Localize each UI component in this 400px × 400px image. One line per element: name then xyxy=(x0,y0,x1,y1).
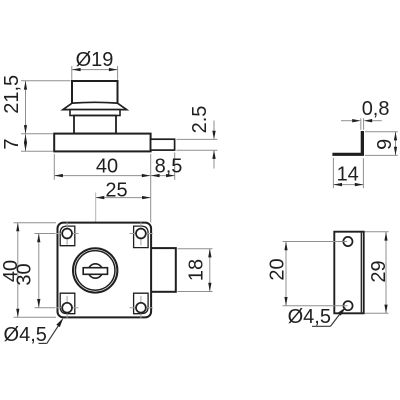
dim 29 arrows xyxy=(384,232,387,241)
svg-text:30: 30 xyxy=(13,263,35,285)
svg-text:20: 20 xyxy=(266,258,288,280)
dim 9 arrows xyxy=(394,132,397,141)
side view: lock body xyxy=(54,134,150,152)
callout Ø4,5 leader (strike) xyxy=(312,325,331,327)
hole crosshairs xyxy=(56,233,79,235)
svg-text:14: 14 xyxy=(337,163,359,185)
dim 30 line xyxy=(38,234,40,308)
screw hole 2 xyxy=(136,229,146,239)
svg-text:9: 9 xyxy=(374,139,396,150)
strike plate inner edge line xyxy=(360,233,362,313)
svg-text:18: 18 xyxy=(186,259,208,281)
key core circle xyxy=(88,264,102,278)
side view: flange collar xyxy=(63,102,127,109)
dim 18 extension lines xyxy=(178,248,213,250)
dim 18 line xyxy=(209,249,211,292)
front view: latch bolt xyxy=(151,248,176,292)
dim 29 extension lines xyxy=(365,231,389,233)
dim 2.5 arrows xyxy=(212,131,215,140)
dim 9 line xyxy=(395,132,397,156)
dim 20 arrows xyxy=(284,242,287,251)
dim 40v arrows xyxy=(16,223,19,232)
dim 40v extension lines xyxy=(14,222,57,224)
svg-text:2.5: 2.5 xyxy=(189,106,211,134)
dim 7 extension lines xyxy=(21,133,53,135)
dim 25 arrows xyxy=(96,196,105,199)
strike plate hole bottom xyxy=(343,301,352,310)
front view: plate xyxy=(58,223,152,318)
dim 9 extension lines xyxy=(365,131,398,133)
screw hole 1 xyxy=(62,229,72,239)
dim 40 arrows xyxy=(54,174,63,177)
dim 29 line xyxy=(385,232,387,313)
callout Ø4,5 leader (front) xyxy=(39,342,47,344)
callout Ø4,5 arrow (front) xyxy=(56,318,63,327)
screw hole 4 xyxy=(136,303,146,313)
svg-text:7: 7 xyxy=(1,138,23,149)
side view: lower cylinder xyxy=(74,116,116,134)
svg-text:25: 25 xyxy=(105,180,127,202)
dim 30 arrows xyxy=(37,234,40,243)
dim 7 arrows xyxy=(24,134,27,143)
dim 40 extension lines xyxy=(53,154,55,180)
strike plate outline xyxy=(334,232,363,314)
dim 0,8 extension lines xyxy=(360,118,362,130)
dim 14 line xyxy=(333,184,363,186)
front view: pad bottom-right xyxy=(134,293,149,314)
dim 2.5 lines xyxy=(213,121,215,139)
L-bracket profile xyxy=(332,131,364,156)
dim 0,8 arrows xyxy=(352,119,361,122)
svg-text:8,5: 8,5 xyxy=(155,155,183,177)
dim Ø19 extension lines xyxy=(71,66,73,80)
dim Ø19 line xyxy=(72,69,118,71)
dim 25 line xyxy=(96,197,151,199)
dim Ø19 arrows xyxy=(72,68,81,71)
side view: cylinder barrel top xyxy=(72,81,118,103)
callout Ø4,5 arrow (strike) xyxy=(338,307,346,315)
dim 14 arrows xyxy=(333,183,342,186)
dim 40v line xyxy=(17,223,19,318)
dim 21,5 arrows xyxy=(24,81,27,90)
dim 20 line xyxy=(285,242,287,306)
svg-text:Ø19: Ø19 xyxy=(76,49,114,71)
dim 14 extension lines xyxy=(332,158,334,188)
strike plate hole top xyxy=(343,237,352,246)
svg-text:29: 29 xyxy=(368,260,390,282)
front view: pad top-right xyxy=(134,226,149,248)
front view: pad bottom-left xyxy=(60,293,75,314)
svg-text:21,5: 21,5 xyxy=(1,75,23,114)
svg-text:40: 40 xyxy=(96,155,118,177)
dim 21,5 extension line xyxy=(21,80,71,82)
svg-text:Ø4,5: Ø4,5 xyxy=(4,324,47,346)
dim 30 extension lines xyxy=(35,233,56,235)
side view: neck washer xyxy=(70,110,120,116)
svg-text:Ø4,5: Ø4,5 xyxy=(288,306,331,328)
screw hole 3 xyxy=(62,303,72,313)
dim 18 arrows xyxy=(208,249,211,258)
dim 25 centerline xyxy=(95,193,97,263)
key slot bar xyxy=(83,268,107,275)
dim 0,8 tails xyxy=(341,120,352,122)
dim 2.5 extension lines xyxy=(177,138,218,140)
cylinder face outer circle xyxy=(73,248,117,292)
dim 8,5 arrows xyxy=(151,174,160,177)
cylinder face inner circle xyxy=(75,251,115,291)
svg-text:0,8: 0,8 xyxy=(362,98,390,120)
front view: pad top-left xyxy=(60,226,75,246)
dim 21,5/7 line xyxy=(25,81,27,151)
side view: latch bolt xyxy=(151,139,175,150)
dim 40/8,5 line xyxy=(54,175,174,177)
dim 20 extension lines xyxy=(283,241,348,243)
